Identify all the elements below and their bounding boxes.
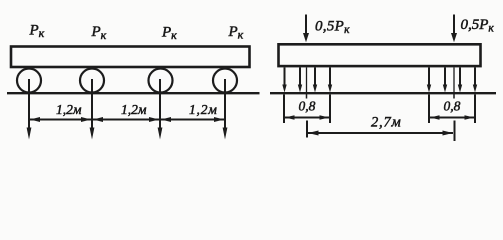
ground line left	[7, 92, 260, 94]
extension line 0,8 left b	[329, 95, 331, 124]
beam left (trolley frame)	[11, 47, 250, 68]
svg-text:Рк: Рк	[29, 23, 45, 41]
dimension line 1,2м (wheel3-wheel4)	[161, 117, 224, 122]
extension line 2,7м right	[454, 121, 456, 142]
top load arrow 0,5Pк left	[303, 15, 309, 43]
dimension line 0,8 right	[430, 115, 474, 120]
extension line 2,7м left	[306, 121, 308, 138]
load arrow wheel 3	[158, 79, 163, 140]
svg-text:0,5Рк: 0,5Рк	[315, 18, 350, 36]
dimension line 0,8 left	[285, 115, 329, 120]
svg-text:1,2м: 1,2м	[121, 102, 147, 117]
wheel 4	[213, 69, 237, 93]
distributed load arrows right cluster	[427, 68, 477, 93]
extension line 0,8 right a	[428, 95, 430, 124]
load arrow wheel 4	[223, 79, 228, 140]
center stub below ground left	[306, 94, 308, 99]
load arrow wheel 1	[27, 79, 32, 140]
center line right cluster (no arrowhead)	[453, 68, 455, 93]
distributed load arrows left cluster	[282, 68, 332, 93]
top load arrow 0,5Pк right	[451, 15, 457, 43]
svg-text:0,8: 0,8	[299, 99, 316, 114]
svg-text:0,8: 0,8	[444, 99, 461, 114]
svg-text:2,7м: 2,7м	[371, 115, 402, 131]
svg-text:Рк: Рк	[161, 25, 177, 43]
center line left cluster (no arrowhead)	[306, 68, 308, 93]
svg-text:1,2м: 1,2м	[189, 102, 218, 117]
dimension line 1,2м (wheel1-wheel2)	[30, 117, 91, 122]
dimension line 1,2м (wheel2-wheel3)	[93, 117, 159, 122]
ground line right	[270, 92, 496, 94]
wheel 3	[149, 69, 173, 93]
dimension line 2,7м	[308, 131, 453, 136]
wheel 2	[80, 69, 104, 93]
wheel 1	[17, 69, 41, 93]
svg-text:Рк: Рк	[228, 24, 244, 42]
svg-text:0,5Рк: 0,5Рк	[461, 17, 495, 35]
extension line 0,8 left a	[283, 95, 285, 124]
center stub below ground right	[453, 94, 455, 99]
extension line 0,8 right b	[474, 95, 476, 124]
beam right	[279, 44, 481, 66]
svg-text:1,2м: 1,2м	[56, 102, 82, 117]
svg-text:Рк: Рк	[91, 24, 107, 42]
load arrow wheel 2	[90, 79, 95, 140]
